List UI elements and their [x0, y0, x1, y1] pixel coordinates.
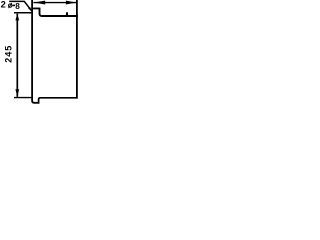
svg-text:245: 245	[3, 45, 13, 63]
svg-text:2: 2	[1, 0, 6, 9]
svg-text:8: 8	[15, 2, 20, 11]
